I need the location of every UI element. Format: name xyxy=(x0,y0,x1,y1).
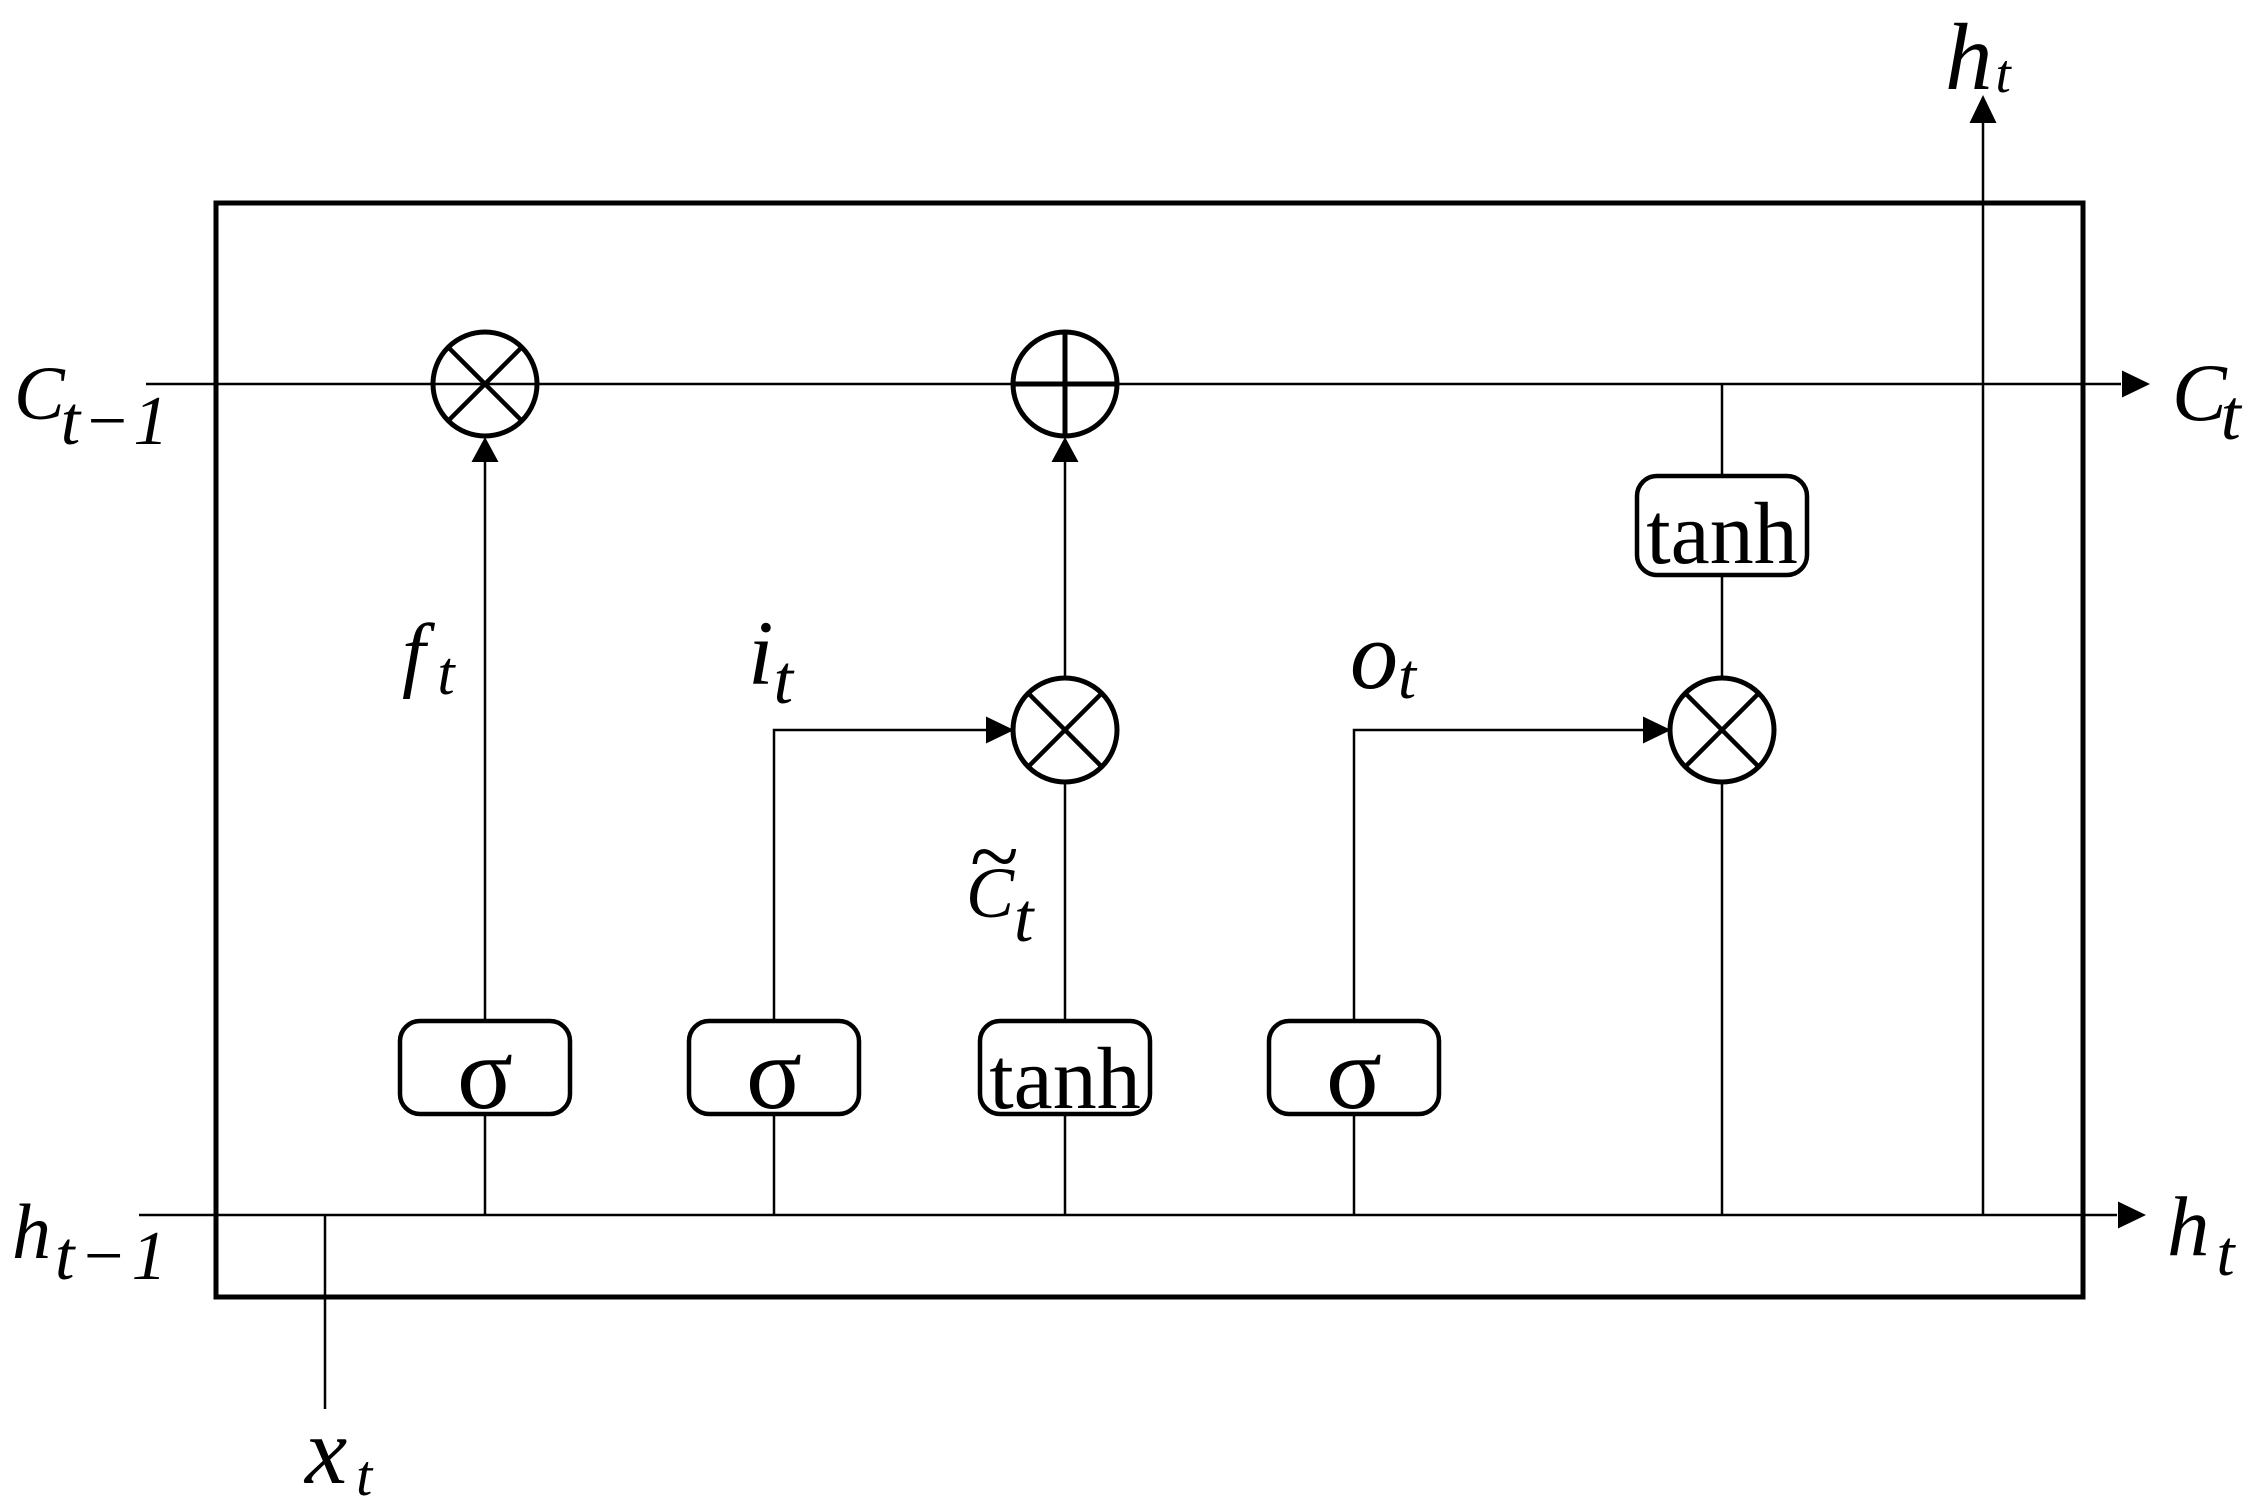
add node circle xyxy=(1013,332,1117,436)
wire: output multiply down to h line xyxy=(1721,781,1724,1215)
arrowhead h_t output right xyxy=(2118,1202,2146,1229)
arrowhead h_t output top xyxy=(1970,95,1997,123)
gate box sigma3 (output) xyxy=(1269,1021,1439,1114)
gate box sigma2 (input) xyxy=(689,1021,859,1114)
wire: candidate multiply down to tanh gate xyxy=(1064,781,1067,1021)
gate box tanh (candidate) xyxy=(980,1021,1150,1114)
wire: h_t top output vertical xyxy=(1982,123,1985,1215)
arrowhead into output multiply xyxy=(1643,717,1671,744)
wire: tanh box to output multiply xyxy=(1721,575,1724,680)
wire: o_t elbow from sigma3 to output multiply xyxy=(1354,730,1644,1021)
multiply node (forget) circle xyxy=(433,332,537,436)
svg-text:tanh: tanh xyxy=(989,1031,1141,1128)
multiply node (candidate) X xyxy=(1028,693,1102,767)
wire: sigma1 down to h line xyxy=(484,1114,487,1215)
arrowhead C_t output xyxy=(2122,371,2150,398)
wire: candidate multiply up to add node xyxy=(1064,461,1067,679)
gate box sigma1 (forget) xyxy=(400,1021,570,1114)
add node plus xyxy=(1013,332,1117,436)
wire: sigma2 down to h line xyxy=(773,1114,776,1215)
wire: tanh gate down to h line xyxy=(1064,1114,1067,1215)
svg-text:σ: σ xyxy=(457,1016,513,1131)
multiply node (output) circle xyxy=(1670,678,1774,782)
svg-text:σ: σ xyxy=(1326,1016,1382,1131)
wire: sigma3 down to h line xyxy=(1353,1114,1356,1215)
wire: hidden-state line h xyxy=(139,1214,2117,1217)
wire: x_t input vertical xyxy=(324,1215,327,1409)
LSTM cell body rectangle xyxy=(216,203,2083,1297)
wire: f_t from sigma1 up to forget multiply xyxy=(484,461,487,1021)
wire: cell-state line C xyxy=(146,383,2121,386)
arrowhead into forget multiply xyxy=(472,437,499,462)
svg-text:tanh: tanh xyxy=(1646,486,1798,583)
svg-text:σ: σ xyxy=(746,1016,802,1131)
multiply node (forget) X xyxy=(448,347,522,421)
tanh output box xyxy=(1637,476,1807,575)
multiply node (output) X xyxy=(1685,693,1759,767)
arrowhead into candidate multiply xyxy=(986,717,1014,744)
wire: i_t elbow from sigma2 to candidate multiply xyxy=(774,730,987,1021)
wire: C line down into tanh output branch xyxy=(1721,384,1724,476)
multiply node (candidate) circle xyxy=(1013,678,1117,782)
svg-text:~: ~ xyxy=(970,807,1019,906)
arrowhead into add node xyxy=(1052,437,1079,462)
